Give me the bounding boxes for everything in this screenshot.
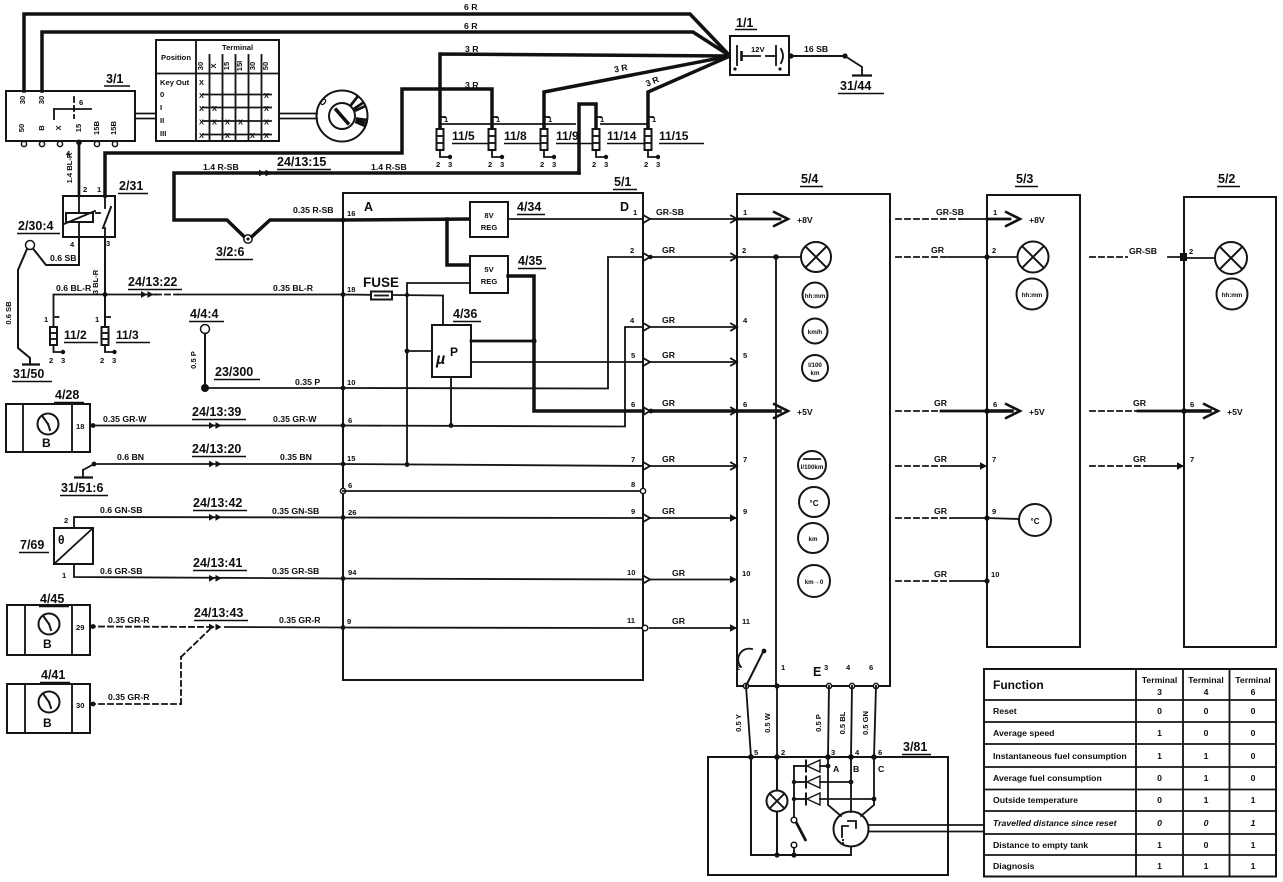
svg-text:24/13:41: 24/13:41 <box>193 556 242 570</box>
svg-text:Distance to empty tank: Distance to empty tank <box>993 840 1088 850</box>
svg-text:X: X <box>264 91 269 100</box>
svg-text:Key Out: Key Out <box>160 78 190 87</box>
svg-text:9: 9 <box>992 507 996 516</box>
warning lamp symbol 5/2 <box>1215 242 1247 274</box>
svg-text:11: 11 <box>627 616 636 625</box>
svg-text:0: 0 <box>1204 706 1209 716</box>
svg-text:GR: GR <box>662 506 676 516</box>
svg-text:GR: GR <box>662 350 676 360</box>
svg-text:5/1: 5/1 <box>614 175 631 189</box>
svg-text:1.4 R-SB: 1.4 R-SB <box>371 162 407 172</box>
wire GR to 5/2 pin6 <box>1090 410 1184 412</box>
reset switch symbol inside 5/4 <box>738 649 766 686</box>
svg-text:+5V: +5V <box>1227 407 1243 417</box>
svg-text:0.6 GR-SB: 0.6 GR-SB <box>100 566 142 576</box>
svg-text:GR: GR <box>1133 398 1147 408</box>
wire 0.6 SB from 2/30:4 down to ground 31/50 <box>18 249 30 364</box>
svg-text:0: 0 <box>1157 795 1162 805</box>
svg-text:GR: GR <box>662 315 676 325</box>
5V regulator 4/35 <box>470 254 546 293</box>
svg-text:3: 3 <box>106 239 110 248</box>
svg-text:GR: GR <box>934 454 948 464</box>
svg-text:6: 6 <box>79 98 83 107</box>
wire 3R from battery to fuse 11/5 <box>440 54 730 129</box>
wire GR-SB D1 to 5/4 pin1 <box>650 218 737 220</box>
display hh:mm 5/2 <box>1217 279 1248 310</box>
box 5/1 <box>343 175 643 680</box>
svg-text:50: 50 <box>17 124 26 132</box>
wire 0.5 P from 4/4:4 to node 23/300 <box>204 334 206 389</box>
wire pin6 into processor <box>861 757 874 816</box>
svg-text:6 R: 6 R <box>464 21 478 31</box>
wire 16 SB from battery to ground 31/44 <box>788 53 862 75</box>
svg-text:Diagnosis: Diagnosis <box>993 861 1035 871</box>
svg-text:5/2: 5/2 <box>1218 172 1235 186</box>
svg-text:P: P <box>450 345 458 359</box>
svg-text:X: X <box>199 104 204 113</box>
diode C <box>794 793 876 805</box>
svg-text:6 R: 6 R <box>464 2 478 12</box>
wire 0.5 W <box>776 686 778 757</box>
wire 8V reg tap down to 5V regulator input <box>447 219 470 265</box>
splice marks on 24/13:15 <box>259 170 272 177</box>
svg-text:0.5 GN: 0.5 GN <box>861 711 870 735</box>
svg-text:1: 1 <box>1157 840 1162 850</box>
5/2 pin 2 to warning lamp <box>1180 247 1215 261</box>
svg-text:4/28: 4/28 <box>55 388 79 402</box>
svg-text:11/2: 11/2 <box>64 328 87 342</box>
svg-text:94: 94 <box>348 568 357 577</box>
svg-text:GR-SB: GR-SB <box>1129 246 1157 256</box>
svg-text:GR: GR <box>662 454 676 464</box>
speed sender 4/41 <box>7 668 90 733</box>
relay contact <box>104 196 106 208</box>
svg-text:16: 16 <box>347 209 355 218</box>
svg-text:29: 29 <box>76 623 84 632</box>
svg-text:3: 3 <box>656 160 660 169</box>
svg-text:3: 3 <box>552 160 556 169</box>
svg-text:15: 15 <box>347 454 356 463</box>
fuse 11/15 <box>644 115 704 169</box>
svg-text:GR: GR <box>662 398 676 408</box>
svg-text:24/13:43: 24/13:43 <box>194 606 243 620</box>
svg-text:5/4: 5/4 <box>801 172 818 186</box>
wire pin6-open row to pin D8 <box>343 490 643 492</box>
wire GR D2 to 5/4 pin2 <box>650 256 737 258</box>
svg-text:4/34: 4/34 <box>517 200 541 214</box>
svg-text:FUSE: FUSE <box>363 275 399 290</box>
svg-text:2: 2 <box>781 748 785 757</box>
wire GR-SB to 5/2 pin2 <box>1090 256 1184 258</box>
wire 24/13:41 (0.6 GR-SB / 0.35 GR-SB) from 7/69 pin 1 to 5/1 pin 94 <box>74 564 343 579</box>
3/81 top pins <box>748 748 882 760</box>
wire GR to 5/3 pin9 <box>896 517 987 519</box>
wire uP bottom pin to pin-6 row <box>449 377 454 428</box>
svg-text:15B: 15B <box>109 121 118 135</box>
svg-text:10: 10 <box>991 570 999 579</box>
wire GR to 5/3 pin6 <box>896 410 987 412</box>
svg-text:15B: 15B <box>92 121 101 135</box>
svg-text:0.5 P: 0.5 P <box>189 351 198 369</box>
wire pin94 row to pin D10 <box>343 579 643 580</box>
microprocessor 4/36 <box>432 307 481 377</box>
warning lamp symbol 5/3 <box>1018 242 1049 273</box>
row Instantaneous fuel consumption <box>993 751 1256 761</box>
wire pin5 down to rail <box>750 757 752 855</box>
wire pin18 fuse feed to microprocessor <box>343 295 443 326</box>
wire GR to 5/3 pin10 <box>896 580 987 582</box>
svg-text:2: 2 <box>100 356 104 365</box>
svg-text:D: D <box>620 200 629 214</box>
wire GR D6 to 5/4 pin6 (thick) <box>650 409 737 413</box>
svg-text:3 R: 3 R <box>465 80 479 90</box>
svg-text:1: 1 <box>1204 773 1209 783</box>
svg-text:0.35 P: 0.35 P <box>295 377 320 387</box>
svg-text:1.4 R-SB: 1.4 R-SB <box>203 162 239 172</box>
row Reset <box>993 706 1256 716</box>
svg-text:10: 10 <box>347 378 355 387</box>
5/2 pin 7 <box>1177 455 1194 470</box>
svg-text:8V: 8V <box>484 211 494 220</box>
ground 31/44 <box>838 76 884 94</box>
svg-text:0: 0 <box>1251 773 1256 783</box>
svg-text:1: 1 <box>1204 861 1209 871</box>
svg-text:50: 50 <box>261 62 270 70</box>
svg-text:11/5: 11/5 <box>452 129 475 143</box>
svg-text:B: B <box>43 637 52 651</box>
svg-text:GR-SB: GR-SB <box>656 207 684 217</box>
svg-text:0.6 BN: 0.6 BN <box>117 452 144 462</box>
svg-text:2: 2 <box>540 160 544 169</box>
ground 31/50 <box>12 365 52 382</box>
relay coil <box>66 213 93 222</box>
svg-text:1: 1 <box>1157 861 1162 871</box>
svg-text:24/13:20: 24/13:20 <box>192 442 241 456</box>
svg-text:3: 3 <box>604 160 608 169</box>
wire uP output to pin D5 <box>471 361 643 363</box>
svg-text:24/13:39: 24/13:39 <box>192 405 241 419</box>
svg-text:B: B <box>42 436 51 450</box>
svg-text:11/14: 11/14 <box>607 129 637 143</box>
diode bus <box>792 766 796 817</box>
svg-text:3: 3 <box>831 748 835 757</box>
svg-text:Travelled distance since reset: Travelled distance since reset <box>993 818 1118 828</box>
svg-text:10: 10 <box>742 569 750 578</box>
svg-text:2: 2 <box>742 246 746 255</box>
processor circle 3/81 <box>834 812 869 847</box>
svg-text:A: A <box>364 200 373 214</box>
wire 0.35 P from 23/300 to 5/1 pin 10 <box>205 387 343 389</box>
key linkage symbol inside 3/1 <box>54 108 91 110</box>
svg-text:3: 3 <box>61 356 65 365</box>
svg-text:31/51:6: 31/51:6 <box>61 481 103 495</box>
svg-text:1/1: 1/1 <box>736 16 753 30</box>
svg-text:l/100: l/100 <box>808 362 822 369</box>
svg-text:24/13:22: 24/13:22 <box>128 275 177 289</box>
display temperature C 5/3 <box>1019 504 1051 536</box>
svg-text:0: 0 <box>1251 751 1256 761</box>
5/4 edge connector marks <box>730 216 737 632</box>
wire 1.4 R-SB horizontal run <box>174 173 579 237</box>
display hh:mm 5/3 <box>1017 279 1048 310</box>
row Average fuel consumption <box>993 773 1256 783</box>
internal rail from pin 1 (bottom) up to lamp wire <box>775 257 777 686</box>
svg-text:X: X <box>225 131 230 140</box>
ignition key symbol <box>317 91 368 142</box>
svg-text:6: 6 <box>869 663 873 672</box>
svg-text:+5V: +5V <box>797 407 813 417</box>
svg-text:REG: REG <box>481 223 498 232</box>
svg-text:6: 6 <box>631 400 635 409</box>
5/3 pin 1 with +8V arrow <box>987 208 1045 227</box>
svg-text:Position: Position <box>161 53 191 62</box>
svg-text:0: 0 <box>1204 840 1209 850</box>
wire fuse rail to uP left pin <box>407 350 432 352</box>
svg-text:3/81: 3/81 <box>903 740 927 754</box>
fuse 11/5 <box>436 115 490 169</box>
mechanical link table to key (double line) <box>279 114 317 119</box>
wire pin3 into processor <box>828 757 841 816</box>
connector 4/4:4 <box>189 307 224 334</box>
wire 0.35 GR-R from 4/41 joining splice 24/13:43 <box>90 630 209 706</box>
svg-text:7: 7 <box>992 455 996 464</box>
row Outside temperature <box>993 795 1256 805</box>
5/3 pin 10 <box>984 570 999 584</box>
node 23/300 <box>201 365 260 392</box>
svg-text:B: B <box>43 716 52 730</box>
fuse 11/3 <box>95 315 150 365</box>
svg-text:Terminal: Terminal <box>1188 675 1224 685</box>
svg-text:9: 9 <box>743 507 747 516</box>
svg-text:11: 11 <box>742 617 751 626</box>
5/3 pin 7 <box>980 455 996 470</box>
svg-text:0.35 GR-SB: 0.35 GR-SB <box>272 566 319 576</box>
svg-text:0.35 R-SB: 0.35 R-SB <box>293 205 334 215</box>
display km to 0 5/4 <box>798 565 830 597</box>
wire pin4 into processor <box>850 757 852 812</box>
svg-text:0.35 GR-R: 0.35 GR-R <box>279 615 321 625</box>
wire pin6 row to pin D4 <box>343 327 643 427</box>
svg-text:X: X <box>199 91 204 100</box>
5/4 pin 2 to warning lamp <box>737 246 801 260</box>
wire 8V regulator output to pin D1 <box>508 218 643 220</box>
wire 24/13:43 (0.35 GR-R) from 4/45 to 5/1 pin 9 <box>90 624 343 629</box>
svg-text:2: 2 <box>630 246 634 255</box>
svg-text:2: 2 <box>83 185 87 194</box>
svg-text:3 BL-R: 3 BL-R <box>91 269 100 294</box>
svg-text:Terminal: Terminal <box>1235 675 1271 685</box>
svg-text:6: 6 <box>1251 687 1256 697</box>
svg-text:9: 9 <box>347 617 351 626</box>
display km/h 5/4 <box>803 319 828 344</box>
svg-text:0.35 GN-SB: 0.35 GN-SB <box>272 506 319 516</box>
svg-text:10: 10 <box>627 568 635 577</box>
svg-text:31/44: 31/44 <box>840 79 871 93</box>
svg-text:5/3: 5/3 <box>1016 172 1033 186</box>
jumper (1.4 R-SB over fuse line into 11/14) <box>579 104 596 173</box>
svg-text:4/36: 4/36 <box>453 307 477 321</box>
wire 3R diagonal from fuse 11/9 to battery <box>544 56 730 129</box>
svg-text:B: B <box>37 125 46 131</box>
wire 3R diagonal from fuse 11/15 to battery <box>648 56 730 129</box>
svg-text:km: km <box>811 370 820 377</box>
svg-text:0.5 BL: 0.5 BL <box>838 711 847 734</box>
fuse top interconnect wire <box>440 123 648 125</box>
svg-text:11/9: 11/9 <box>556 129 579 143</box>
svg-text:30: 30 <box>248 62 257 70</box>
ground 31/51:6 <box>60 470 108 496</box>
ignition switch 3/1 <box>6 72 135 158</box>
sender 4/28 <box>6 388 90 452</box>
svg-text:8: 8 <box>631 480 635 489</box>
wire GR D5 to 5/4 pin5 <box>650 361 737 363</box>
speed sender 4/45 <box>7 592 90 655</box>
svg-text:6: 6 <box>1190 400 1194 409</box>
wire 0.5 GN <box>874 686 876 757</box>
svg-text:30: 30 <box>37 96 46 104</box>
svg-text:15: 15 <box>222 61 231 70</box>
svg-text:km/h: km/h <box>808 329 823 336</box>
svg-text:X: X <box>225 118 230 127</box>
svg-text:3 R: 3 R <box>465 44 479 54</box>
warning lamp symbol 5/4 <box>801 242 831 272</box>
svg-text:+8V: +8V <box>797 215 813 225</box>
svg-text:Average fuel consumption: Average fuel consumption <box>993 773 1102 783</box>
battery 1/1 <box>730 16 789 75</box>
svg-text:0.5 P: 0.5 P <box>814 714 823 732</box>
svg-text:km→0: km→0 <box>805 579 824 586</box>
svg-text:X: X <box>238 118 243 127</box>
svg-text:7/69: 7/69 <box>20 538 44 552</box>
wire 0.5 P <box>828 686 829 757</box>
diode B <box>794 776 853 788</box>
wire GR to 5/2 pin7 <box>1090 465 1184 467</box>
open terminals under 3/1 <box>21 141 26 146</box>
svg-text:3: 3 <box>1157 687 1162 697</box>
svg-text:4/45: 4/45 <box>40 592 64 606</box>
svg-text:3: 3 <box>448 160 452 169</box>
svg-text:2: 2 <box>49 356 53 365</box>
svg-text:1: 1 <box>1204 751 1209 761</box>
svg-text:km: km <box>809 536 818 543</box>
svg-text:X: X <box>250 131 255 140</box>
svg-text:0.6 BL-R: 0.6 BL-R <box>56 283 92 293</box>
wire 0.5 Y <box>746 686 751 757</box>
wire GR D11 to 5/4 pin11 <box>650 627 737 629</box>
svg-text:30: 30 <box>76 701 84 710</box>
svg-text:7: 7 <box>743 455 747 464</box>
svg-text:16 SB: 16 SB <box>804 44 828 54</box>
svg-text:0.35 BN: 0.35 BN <box>280 452 312 462</box>
svg-text:1: 1 <box>1204 795 1209 805</box>
wire GR to 5/3 pin2 <box>896 256 987 258</box>
svg-text:2: 2 <box>644 160 648 169</box>
wire 0.5 BL <box>851 686 852 757</box>
svg-text:X: X <box>209 63 218 68</box>
5/3 pin 2 to warning lamp <box>984 246 1017 260</box>
svg-text:0: 0 <box>1251 728 1256 738</box>
svg-text:2: 2 <box>64 516 68 525</box>
svg-text:GR: GR <box>934 506 948 516</box>
svg-text:6: 6 <box>348 481 352 490</box>
svg-text:3: 3 <box>500 160 504 169</box>
wire pin26 row to pin D9 <box>343 517 643 520</box>
svg-text:23/300: 23/300 <box>215 365 253 379</box>
svg-text:B: B <box>853 764 859 774</box>
svg-text:GR-SB: GR-SB <box>936 207 964 217</box>
fuse 11/14 <box>592 115 652 169</box>
svg-text:Average speed: Average speed <box>993 728 1055 738</box>
svg-text:2: 2 <box>992 246 996 255</box>
wire GR D7 to 5/4 pin7 <box>650 465 737 467</box>
svg-text:7: 7 <box>1190 455 1194 464</box>
svg-text:0.5 Y: 0.5 Y <box>734 714 743 732</box>
row Average speed <box>993 728 1256 738</box>
wire 24/13:20 (0.6 BN / 0.35 BN) from 31/51:6 to 5/1 pin 15 <box>83 462 343 470</box>
diode A <box>794 760 830 772</box>
svg-text:11/3: 11/3 <box>116 328 139 342</box>
row Diagnosis <box>993 861 1256 871</box>
bottom rail 3/81 <box>751 847 851 858</box>
wire 6R second feed from 3/1 terminal 30 to battery 1/1 <box>42 32 730 91</box>
svg-text:0.5 W: 0.5 W <box>763 712 772 733</box>
svg-text:1: 1 <box>1157 751 1162 761</box>
svg-text:4/35: 4/35 <box>518 254 542 268</box>
svg-text:0.35 GR-R: 0.35 GR-R <box>108 615 150 625</box>
svg-text:0.6 GN-SB: 0.6 GN-SB <box>100 505 142 515</box>
svg-text:24/13:15: 24/13:15 <box>277 155 326 169</box>
svg-text:11/15: 11/15 <box>659 129 689 143</box>
svg-text:C: C <box>878 764 885 774</box>
svg-text:GR: GR <box>672 568 686 578</box>
svg-text:1: 1 <box>1251 818 1256 828</box>
8V regulator 4/34 <box>470 200 545 237</box>
svg-text:A: A <box>833 764 840 774</box>
fuse 11/8 <box>488 115 542 169</box>
svg-text:+5V: +5V <box>1029 407 1045 417</box>
svg-text:0.35 GR-W: 0.35 GR-W <box>273 414 317 424</box>
display temperature C 5/4 <box>799 487 829 517</box>
wire 0.6 SB relay pin4 to 2/30:4 <box>33 237 79 265</box>
svg-text:E: E <box>813 665 821 679</box>
wire 5V regulator output down to pin D6 <box>508 276 643 411</box>
svg-text:Outside temperature: Outside temperature <box>993 795 1078 805</box>
svg-text:1: 1 <box>1251 840 1256 850</box>
fuse (internal) <box>363 275 399 300</box>
wire 24/13:39 (0.35 GR-W) from 4/28 to 5/1 pin 6 <box>90 423 343 428</box>
svg-text:2: 2 <box>1189 247 1193 256</box>
svg-text:l/100km: l/100km <box>801 464 824 471</box>
mode switch 3/81 <box>791 817 806 855</box>
5/2 pin 6 with +5V arrow <box>1181 400 1243 419</box>
mechanical link 3/1 to table (double line) <box>135 114 156 119</box>
svg-text:GR: GR <box>672 616 686 626</box>
connector 2/30:4 <box>17 219 60 250</box>
svg-text:hh:mm: hh:mm <box>805 293 826 300</box>
display km 5/4 <box>798 523 828 553</box>
svg-text:0.6 SB: 0.6 SB <box>4 301 13 325</box>
svg-text:0: 0 <box>1204 728 1209 738</box>
svg-text:X: X <box>54 125 63 130</box>
svg-text:26: 26 <box>348 508 356 517</box>
display l/100km 5/4 <box>802 355 828 381</box>
svg-text:GR: GR <box>931 245 945 255</box>
fuse 11/2 <box>44 315 98 365</box>
svg-text:0.35 BL-R: 0.35 BL-R <box>273 283 314 293</box>
left edge pin dots <box>340 218 345 630</box>
svg-text:6: 6 <box>743 400 747 409</box>
svg-text:1: 1 <box>1251 795 1256 805</box>
